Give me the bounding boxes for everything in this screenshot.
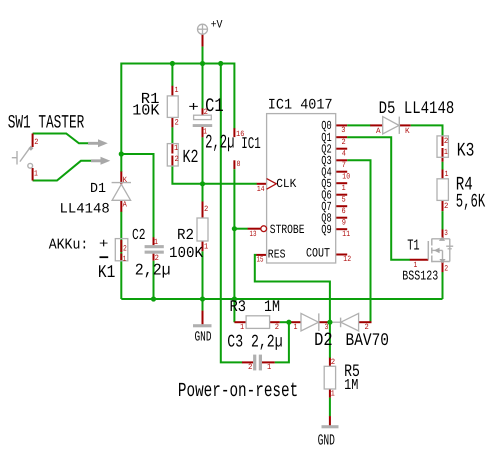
svg-text:2: 2 (342, 138, 346, 147)
svg-text:D5 LL4148: D5 LL4148 (379, 99, 455, 119)
svg-text:7: 7 (342, 161, 346, 170)
svg-text:T1: T1 (407, 237, 419, 255)
svg-text:6: 6 (342, 207, 346, 216)
svg-text:1: 1 (267, 363, 271, 372)
svg-text:3: 3 (444, 229, 448, 238)
svg-text:GND: GND (195, 330, 212, 346)
svg-text:K: K (405, 127, 410, 136)
svg-text:1: 1 (331, 390, 335, 399)
svg-text:2: 2 (444, 137, 449, 146)
svg-text:2,2µ: 2,2µ (135, 261, 171, 280)
svg-text:A: A (376, 127, 381, 136)
svg-text:2: 2 (123, 244, 127, 253)
svg-text:3: 3 (325, 323, 329, 332)
svg-text:+: + (99, 237, 109, 252)
svg-text:GND: GND (318, 432, 335, 450)
svg-text:13: 13 (250, 230, 257, 239)
svg-text:1: 1 (240, 323, 244, 332)
svg-text:BAV70: BAV70 (346, 331, 390, 351)
svg-text:1: 1 (123, 255, 127, 264)
svg-text:2: 2 (275, 323, 279, 332)
svg-text:2: 2 (444, 265, 448, 274)
svg-text:2: 2 (204, 108, 208, 117)
svg-text:CLK: CLK (276, 177, 297, 191)
svg-text:1: 1 (174, 144, 178, 153)
svg-text:1: 1 (444, 148, 448, 157)
svg-text:COUT: COUT (306, 246, 330, 261)
svg-text:LL4148: LL4148 (60, 201, 110, 217)
svg-text:1: 1 (204, 243, 208, 252)
svg-text:1: 1 (294, 323, 298, 332)
svg-text:9: 9 (342, 218, 346, 227)
svg-text:2: 2 (175, 155, 179, 164)
svg-text:16: 16 (236, 130, 244, 139)
svg-text:2: 2 (331, 358, 336, 367)
svg-text:2: 2 (34, 138, 38, 147)
svg-text:IC1 4017: IC1 4017 (268, 97, 333, 113)
svg-text:10K: 10K (132, 102, 160, 120)
svg-text:1: 1 (203, 128, 207, 137)
svg-text:1: 1 (154, 238, 158, 247)
svg-text:C2: C2 (132, 226, 146, 244)
svg-text:1M: 1M (344, 376, 358, 394)
svg-text:2: 2 (444, 202, 449, 211)
svg-text:D2: D2 (314, 329, 333, 351)
svg-text:Q9: Q9 (321, 223, 331, 237)
svg-text:2,2µ: 2,2µ (205, 131, 234, 153)
svg-text:R3: R3 (230, 298, 247, 316)
svg-text:10: 10 (342, 172, 350, 181)
svg-text:RES: RES (268, 248, 286, 262)
svg-text:3: 3 (341, 126, 345, 135)
svg-text:1: 1 (342, 184, 346, 193)
svg-text:2: 2 (365, 323, 369, 332)
svg-text:R2: R2 (177, 226, 194, 244)
svg-text:1: 1 (445, 170, 449, 179)
svg-text:K: K (123, 176, 128, 185)
svg-text:STROBE: STROBE (270, 222, 305, 237)
svg-text:5: 5 (342, 195, 346, 204)
svg-text:C3 2,2µ: C3 2,2µ (227, 333, 282, 353)
svg-text:SW1 TASTER: SW1 TASTER (8, 111, 85, 133)
svg-text:K2: K2 (183, 147, 199, 168)
svg-text:1M: 1M (264, 298, 280, 316)
svg-text:A: A (123, 201, 127, 210)
svg-text:12: 12 (343, 255, 351, 264)
svg-text:11: 11 (342, 230, 350, 239)
svg-text:1: 1 (414, 261, 418, 270)
svg-text:2: 2 (175, 119, 179, 128)
svg-text:5,6K: 5,6K (456, 191, 486, 213)
svg-text:+: + (188, 100, 199, 116)
svg-text:14: 14 (257, 185, 265, 194)
svg-text:1: 1 (34, 169, 38, 178)
svg-text:K1: K1 (98, 263, 115, 283)
svg-text:1: 1 (175, 86, 179, 95)
svg-text:15: 15 (257, 256, 264, 265)
svg-text:2: 2 (155, 254, 159, 263)
svg-text:Power-on-reset: Power-on-reset (178, 380, 298, 403)
svg-text:2: 2 (248, 363, 253, 372)
svg-text:8: 8 (237, 160, 241, 169)
svg-text:100K: 100K (169, 244, 204, 262)
svg-text:K3: K3 (457, 140, 475, 162)
svg-text:2: 2 (204, 205, 208, 214)
svg-text:D1: D1 (90, 181, 106, 197)
svg-text:BSS123: BSS123 (402, 270, 438, 285)
svg-text:AKKu:: AKKu: (49, 237, 89, 253)
svg-text:+V: +V (211, 19, 223, 31)
svg-text:4: 4 (342, 149, 346, 158)
